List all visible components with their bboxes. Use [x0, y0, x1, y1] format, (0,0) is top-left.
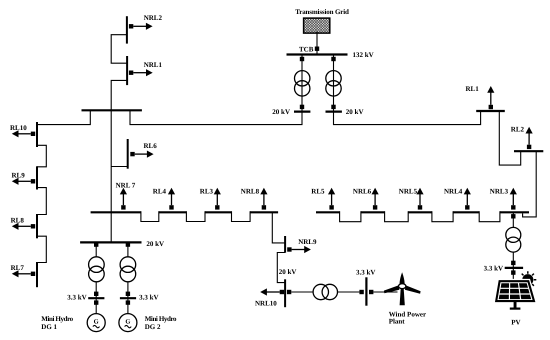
- load arrow RL10: [18, 133, 31, 135]
- transformer T1: [295, 71, 310, 86]
- node bar 20 kV left: [294, 110, 310, 112]
- breaker square RL6: [130, 152, 134, 156]
- wire T6 to generator DG2: [127, 282, 129, 314]
- breaker square 3.3kV left: [359, 290, 363, 294]
- main riser wire to lower buses: [110, 110, 112, 242]
- breaker square T1 top: [300, 57, 304, 61]
- breaker square RL10: [31, 132, 35, 136]
- breaker square NRL9: [287, 247, 291, 251]
- svg-text:RL4: RL4: [153, 188, 167, 196]
- transformer T4 PV: [506, 227, 521, 242]
- wire riser to RL6: [111, 166, 128, 168]
- svg-text:RL1: RL1: [466, 85, 480, 93]
- svg-text:20 kV: 20 kV: [346, 108, 364, 116]
- feeder stub RL8: [36, 214, 38, 238]
- svg-text:RL5: RL5: [311, 188, 325, 196]
- svg-text:RL9: RL9: [12, 171, 26, 179]
- load arrow RL3: [215, 205, 219, 209]
- feeder stub RL10: [36, 122, 38, 147]
- wire bus3 to hydro T6: [127, 242, 129, 257]
- load arrow RL6: [135, 153, 148, 155]
- distribution bus 2 right segment 4: [453, 211, 479, 213]
- distribution bus 2 left segment 3: [205, 211, 232, 213]
- wire bus2r seg1-seg2: [340, 211, 361, 222]
- load arrow NRL1: [133, 72, 146, 74]
- svg-text:NRL8: NRL8: [241, 188, 260, 196]
- svg-text:NRL10: NRL10: [255, 300, 277, 308]
- wire bus2 seg3-seg4: [232, 211, 251, 221]
- bus 20 kV hydro: [80, 241, 141, 243]
- load arrow NRL8: [262, 205, 266, 209]
- breaker square wind left: [287, 290, 291, 294]
- wire RL1 bus to RL2 bus: [499, 111, 520, 165]
- svg-text:RL3: RL3: [200, 188, 214, 196]
- wire T5 to generator DG1: [95, 282, 97, 314]
- svg-text:20 kV: 20 kV: [146, 240, 164, 248]
- transformer T2: [326, 71, 341, 86]
- transmission grid source block: [304, 18, 330, 33]
- load arrow RL1: [489, 105, 493, 109]
- breaker square DG2 top: [126, 242, 130, 246]
- load arrow RL2: [527, 145, 531, 149]
- wire bus2 to NRL9 stub: [272, 212, 285, 243]
- distribution bus 2 left segment 1: [91, 211, 141, 213]
- svg-text:20 kV: 20 kV: [279, 268, 297, 276]
- generator DG2: [119, 314, 137, 332]
- breaker square NRL10: [280, 290, 284, 294]
- sun icon: [519, 271, 536, 288]
- feeder stub NRL9: [284, 236, 286, 253]
- wire bus3 to hydro T5: [95, 242, 97, 257]
- breaker square DG2 mid: [126, 292, 130, 296]
- breaker square PV mid: [511, 261, 515, 265]
- svg-text:NRL2: NRL2: [144, 14, 163, 22]
- wire bus2 seg2-seg3: [186, 211, 205, 221]
- feeder stub RL9: [36, 166, 38, 189]
- svg-text:NRL6: NRL6: [353, 188, 372, 196]
- wire RL9 to RL8: [37, 188, 46, 215]
- breaker TCB square: [315, 47, 319, 51]
- svg-text:NRL4: NRL4: [444, 188, 463, 196]
- main 20kV bus (top distribution bus): [82, 109, 142, 111]
- distribution bus 2 right segment 2: [361, 211, 385, 213]
- load arrow RL8: [18, 225, 31, 227]
- feeder stub RL6: [127, 139, 129, 169]
- load arrow NRL6: [373, 205, 377, 209]
- wire bus to left ladder: [37, 110, 90, 124]
- svg-text:NRL5: NRL5: [399, 188, 418, 196]
- breaker square RL8: [31, 224, 35, 228]
- node bar 3.3 kV DG1: [88, 297, 104, 299]
- node bar 3.3 kV DG2: [120, 297, 136, 299]
- svg-text:TCB: TCB: [299, 45, 314, 53]
- wire bus2r seg4-seg5: [479, 211, 500, 222]
- svg-text:NRL9: NRL9: [298, 238, 317, 246]
- wire bus2r seg2-seg3: [385, 211, 409, 222]
- wire T2 to RL1 bus: [334, 111, 481, 125]
- svg-text:Transmission Grid: Transmission Grid: [295, 8, 349, 16]
- svg-text:Plant: Plant: [389, 318, 406, 326]
- svg-text:Mini Hydro: Mini Hydro: [145, 315, 177, 323]
- load arrow NRL4: [465, 205, 469, 209]
- breaker square RL7: [31, 272, 35, 276]
- wire RL8 to RL7: [37, 236, 46, 262]
- wire NRL1 to main bus: [111, 80, 127, 110]
- feeder stub NRL1: [126, 56, 128, 85]
- node bar 3.3 kV PV: [505, 267, 523, 269]
- breaker square NRL2: [129, 24, 133, 28]
- svg-text:RL7: RL7: [11, 264, 25, 272]
- breaker square T2 bottom: [331, 105, 335, 109]
- wire to wind turbine: [373, 291, 397, 293]
- breaker square PV top: [511, 214, 515, 218]
- breaker square DG1 top: [94, 242, 98, 246]
- feeder stub RL7: [36, 262, 38, 287]
- breaker square T1 bottom: [300, 105, 304, 109]
- svg-text:RL6: RL6: [144, 142, 158, 150]
- svg-text:NRL 7: NRL 7: [116, 181, 136, 189]
- svg-text:3.3 kV: 3.3 kV: [356, 268, 375, 276]
- breaker square DG2 bottom: [126, 300, 130, 304]
- wire bus2 to PV transformer: [512, 212, 514, 227]
- load arrow NRL3: [511, 205, 515, 209]
- feeder stub NRL2: [126, 16, 128, 43]
- node bar 20 kV right: [326, 110, 342, 112]
- breaker square DG1 bottom: [94, 300, 98, 304]
- load arrow RL9: [18, 180, 31, 182]
- bus RL1: [476, 110, 505, 112]
- wire RL10 to RL9: [37, 145, 46, 167]
- node bar 3.3 kV wind: [365, 277, 367, 305]
- svg-text:NRL1: NRL1: [144, 61, 163, 69]
- svg-text:RL10: RL10: [10, 124, 27, 132]
- svg-text:G: G: [125, 318, 130, 325]
- svg-text:3.3 kV: 3.3 kV: [139, 294, 158, 302]
- distribution bus 2 left segment 4: [250, 211, 278, 213]
- svg-text:20 kV: 20 kV: [272, 108, 290, 116]
- load arrow RL4: [169, 205, 173, 209]
- wire RL2 bus to bus2 right: [523, 151, 537, 217]
- breaker square NRL1: [129, 71, 133, 75]
- wire transformer to 3.3kV bar PV: [512, 252, 514, 281]
- load arrow RL5: [329, 205, 333, 209]
- wire grid to 132kV bus: [316, 32, 318, 55]
- wind turbine W1: [384, 272, 421, 305]
- wire NRL2 to NRL1: [111, 35, 127, 64]
- distribution bus 2 right segment 5: [500, 211, 529, 213]
- svg-text:132 kV: 132 kV: [353, 51, 374, 59]
- load arrow NRL9: [292, 249, 305, 251]
- distribution bus 2 left segment 2: [159, 211, 187, 213]
- distribution bus 2 right segment 3: [408, 211, 432, 213]
- svg-text:DG 2: DG 2: [145, 323, 161, 331]
- svg-text:NRL3: NRL3: [490, 188, 509, 196]
- svg-text:3.3 kV: 3.3 kV: [484, 264, 503, 272]
- svg-text:PV: PV: [511, 319, 520, 327]
- PV panel P1: [496, 281, 534, 301]
- PV stand: [514, 301, 517, 308]
- breaker square DG1 mid: [94, 292, 98, 296]
- breaker square T2 top: [331, 57, 335, 61]
- wire to wind transformer: [291, 291, 313, 293]
- svg-text:3.3 kV: 3.3 kV: [67, 294, 86, 302]
- load arrow NRL10: [267, 291, 280, 293]
- wire T1 to main bus: [130, 110, 302, 124]
- wire bus2 seg1-seg2: [141, 211, 159, 221]
- svg-text:RL8: RL8: [11, 216, 25, 224]
- wire bus to transformer T1: [301, 55, 303, 112]
- bus RL2: [514, 150, 543, 152]
- load arrow NRL7: [121, 205, 125, 209]
- generator DG1: [87, 314, 105, 332]
- node bar 20 kV wind: [284, 279, 286, 307]
- svg-text:Mini Hydro: Mini Hydro: [41, 315, 73, 323]
- load arrow NRL5: [418, 205, 422, 209]
- wire NRL9 stub to 20kV stub: [277, 253, 285, 283]
- load arrow NRL2: [133, 25, 146, 27]
- svg-text:DG 1: DG 1: [41, 323, 57, 331]
- breaker square 3.3kV right: [369, 290, 373, 294]
- svg-text:G: G: [94, 318, 99, 325]
- breaker square PV bottom: [511, 270, 515, 274]
- transformer T3 wind: [313, 284, 328, 299]
- breaker square RL9: [31, 179, 35, 183]
- transformer T5: [89, 257, 105, 273]
- distribution bus 2 right segment 1: [316, 211, 340, 213]
- wire bus2r seg3-seg4: [432, 211, 453, 222]
- svg-text:RL2: RL2: [511, 126, 525, 134]
- wire bus to transformer T2: [333, 55, 335, 112]
- transformer T6: [120, 257, 136, 273]
- wire transformer to 3.3kV bar: [338, 291, 360, 293]
- bus 132 kV: [287, 53, 348, 55]
- load arrow RL7: [18, 273, 31, 275]
